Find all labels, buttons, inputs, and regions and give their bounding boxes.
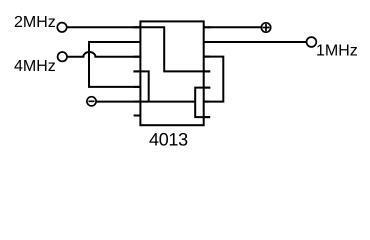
pin stub right p2 xyxy=(204,41,211,43)
node label 4MHz xyxy=(14,60,55,71)
wire VDD pin to plus supply xyxy=(204,26,266,28)
wire 1MHz output xyxy=(204,41,312,43)
IC U1 4013 body xyxy=(140,21,203,125)
pin stub right p3 xyxy=(204,56,211,58)
pin stub right p1 xyxy=(204,26,211,28)
pin stub left p5 xyxy=(134,86,141,88)
node label 1MHz xyxy=(317,44,357,55)
wire right p5 to p7 loop xyxy=(195,88,210,118)
terminal 2MHz input xyxy=(57,23,66,32)
pin stub left p7 xyxy=(134,115,141,117)
pin stub left p4 xyxy=(134,70,141,72)
terminal 1MHz output xyxy=(307,37,317,47)
node label 2MHz xyxy=(15,16,55,27)
wire node A: left p2 to left p5 loop xyxy=(89,42,140,87)
pin stub left p2 xyxy=(134,41,141,43)
pin stub right p7 xyxy=(204,116,211,118)
pin stub right p4 xyxy=(204,70,211,72)
pin stub left p1 xyxy=(134,26,141,28)
ground minus supply terminal xyxy=(87,97,96,106)
value label 4013 for U1 xyxy=(149,133,187,146)
wire left p4 down to ground rail xyxy=(133,71,148,101)
wire 4MHz input with hop over vertical xyxy=(62,52,140,57)
terminal 4MHz input xyxy=(58,52,67,61)
pin stub right p6 xyxy=(204,101,211,103)
pin stub left p6 xyxy=(134,101,141,103)
plus supply terminal xyxy=(261,23,270,32)
pin stub right p5 xyxy=(204,87,211,89)
wire ground rail from minus terminal xyxy=(92,101,196,103)
wire 2MHz input to clock pin, routed across IC xyxy=(62,27,210,71)
pin stub left p3 xyxy=(134,56,141,58)
wire right U loop p3 to p6 xyxy=(204,57,224,102)
